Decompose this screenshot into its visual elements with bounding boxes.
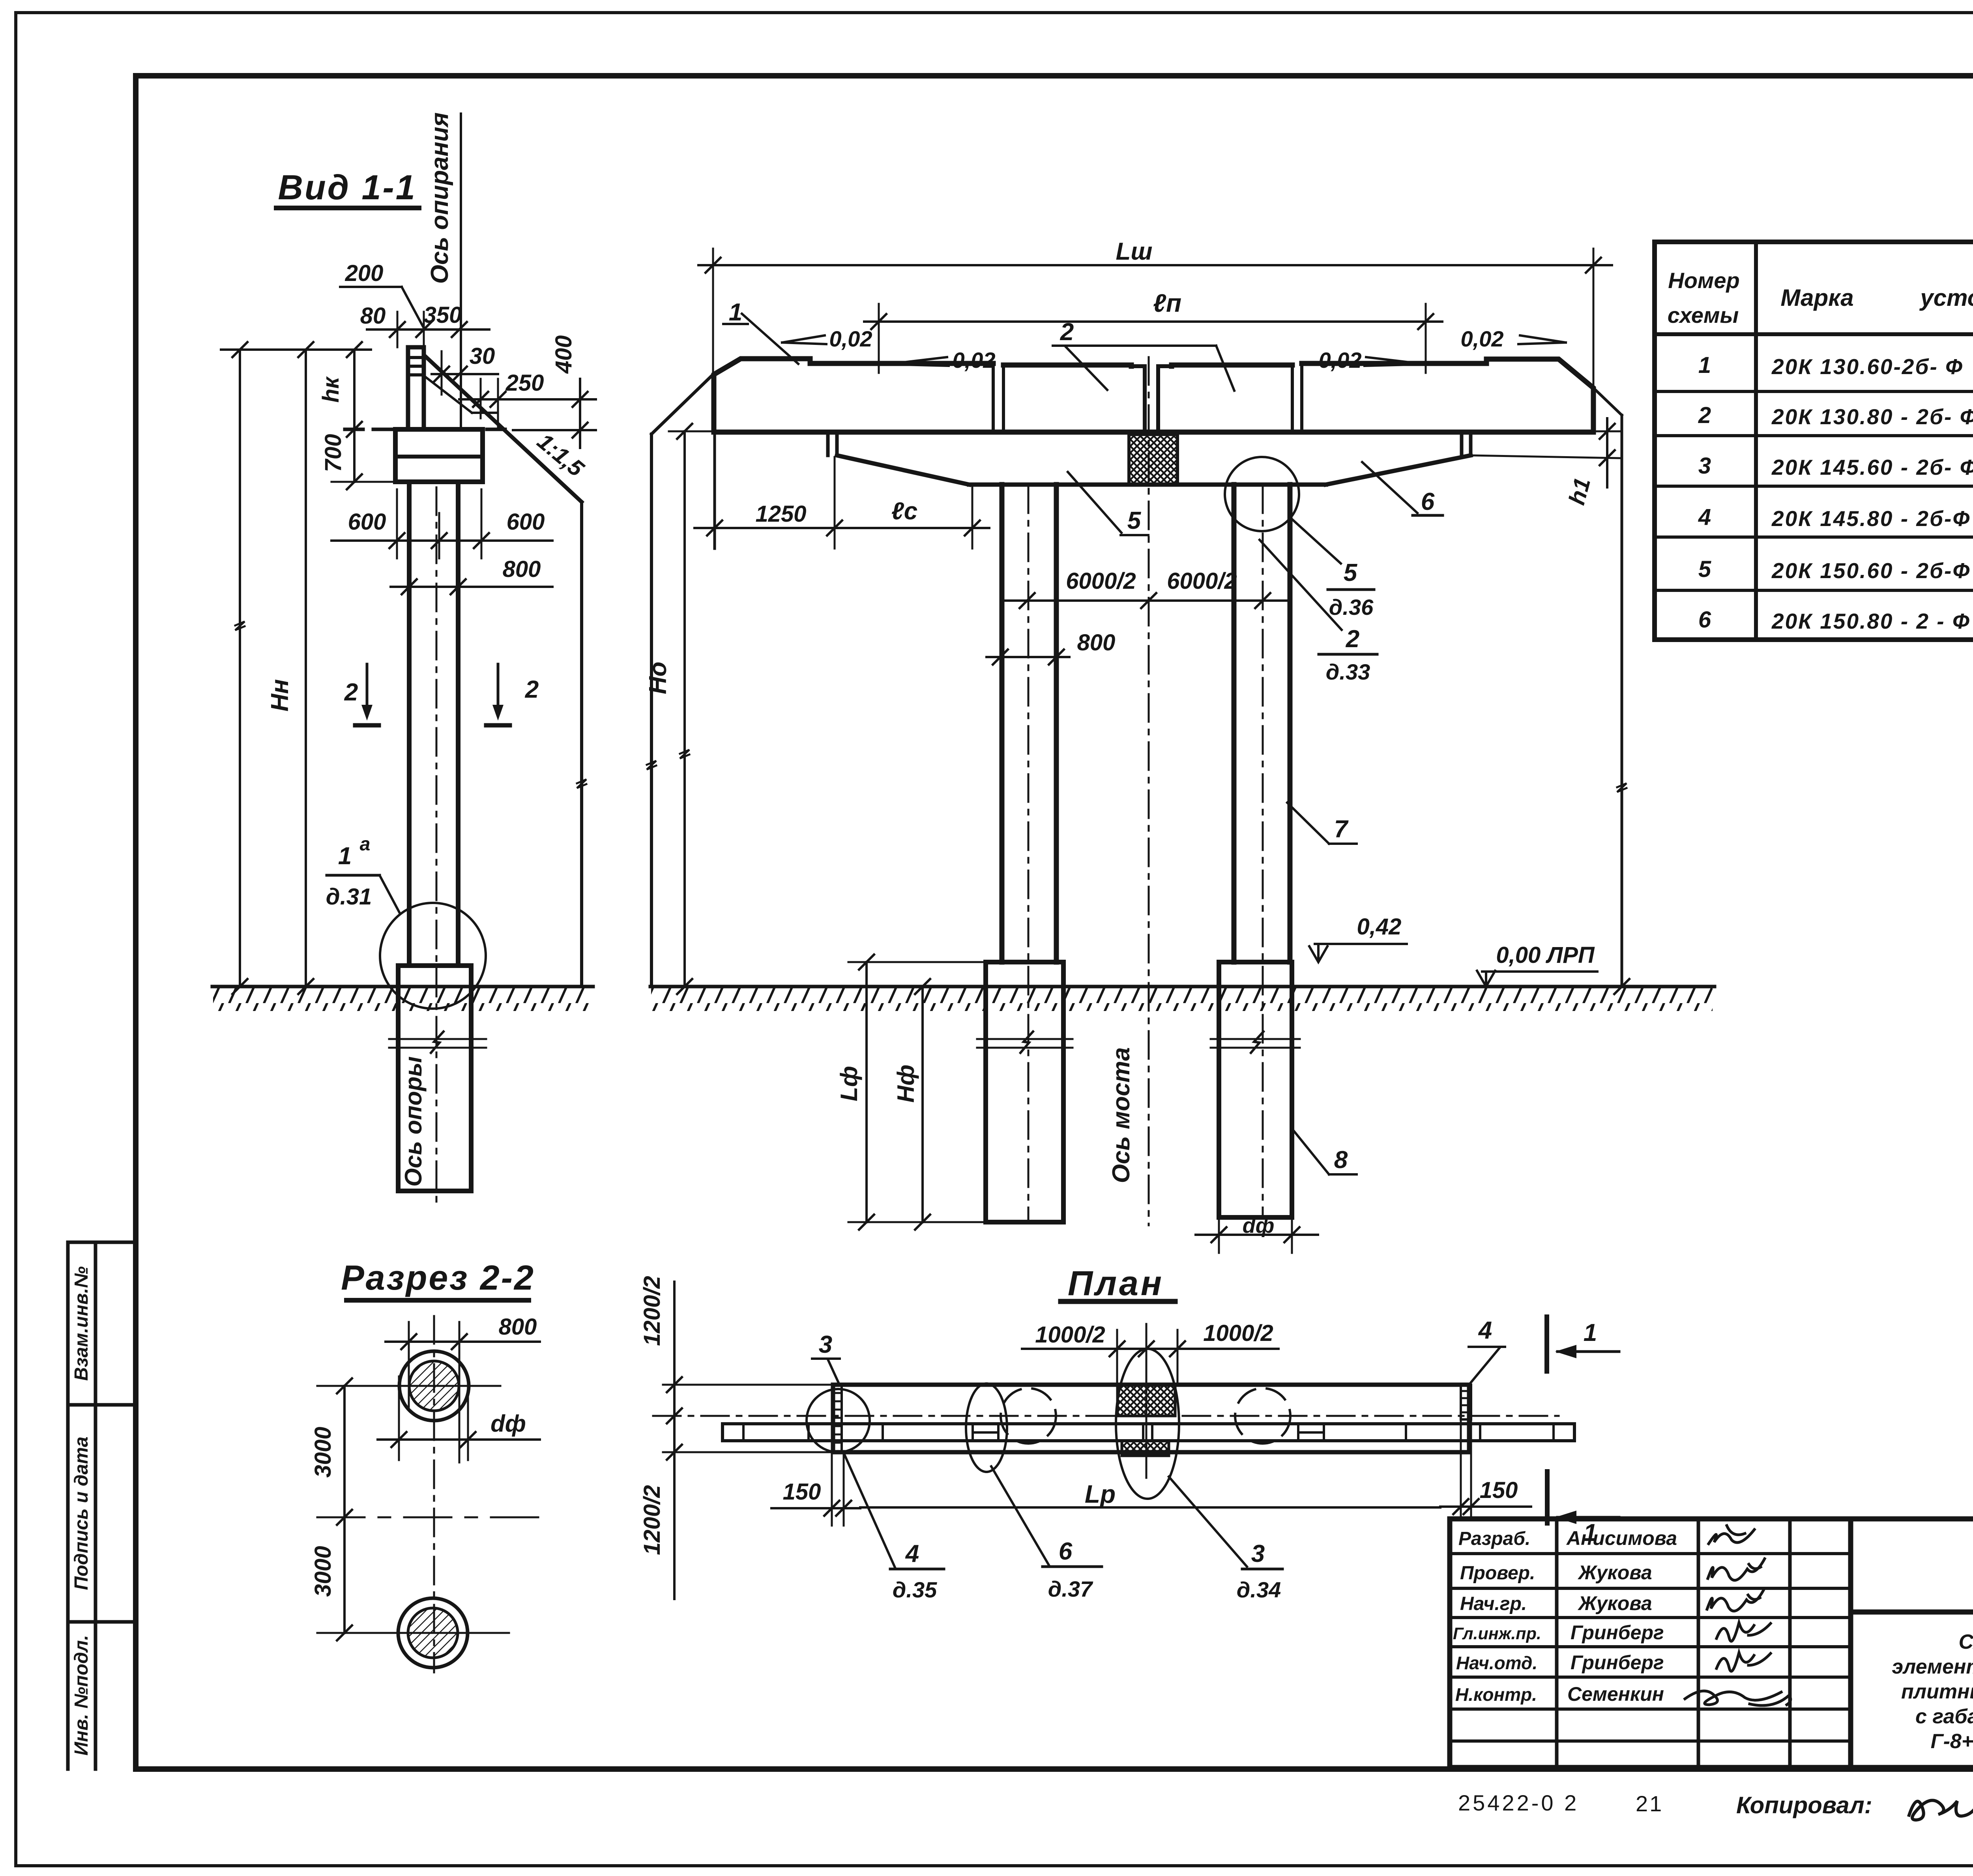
- svg-text:3000: 3000: [310, 1427, 336, 1477]
- hidden pile circles in plan: [1001, 1388, 1290, 1444]
- stamp label Подпись и дата: [71, 1436, 92, 1590]
- svg-text:Lр: Lр: [1085, 1480, 1116, 1508]
- label 1 (deck slab): [723, 299, 798, 364]
- svg-text:20К 130.60-2б- Ф: 20К 130.60-2б- Ф: [1771, 354, 1964, 379]
- drilled shaft foundation (view 1-1): [398, 966, 471, 1191]
- right cone outline (elevation): [1593, 388, 1629, 994]
- svg-text:2: 2: [1346, 625, 1359, 653]
- svg-text:600: 600: [348, 509, 386, 535]
- svg-text:1: 1: [729, 299, 742, 326]
- dim Lш: [698, 238, 1612, 385]
- svg-text:Инв. №подл.: Инв. №подл.: [71, 1635, 92, 1756]
- svg-text:Номер: Номер: [1668, 268, 1739, 293]
- bottom annotations: [1458, 1790, 1973, 1820]
- table row 4: [1698, 504, 1973, 531]
- svg-text:3000: 3000: [310, 1546, 336, 1597]
- detail circle (pile top of foundation): [380, 903, 486, 1009]
- deck outline: [714, 359, 1593, 432]
- svg-text:20К 130.80 - 2б- Ф: 20К 130.80 - 2б- Ф: [1771, 404, 1973, 429]
- svg-text:Ось опирания: Ось опирания: [426, 112, 453, 284]
- svg-text:д.37: д.37: [1048, 1576, 1093, 1601]
- dim 600 600: [331, 489, 552, 558]
- hidden cap top edge dashed: [345, 428, 513, 431]
- support axis label Ось опоры: [400, 1056, 427, 1187]
- svg-text:200: 200: [345, 260, 384, 286]
- svg-text:1: 1: [1584, 1519, 1597, 1546]
- svg-text:6: 6: [1698, 607, 1711, 633]
- drawing description: [1892, 1631, 1973, 1753]
- pile circle top (section 2-2): [317, 1351, 500, 1460]
- dim 80 350: [360, 302, 489, 347]
- svg-text:Н.контр.: Н.контр.: [1455, 1684, 1537, 1705]
- svg-text:Провер.: Провер.: [1460, 1563, 1535, 1584]
- svg-text:2: 2: [1060, 318, 1074, 346]
- svg-text:Жукова: Жукова: [1577, 1592, 1652, 1614]
- svg-text:800: 800: [499, 1314, 537, 1340]
- svg-text:150: 150: [783, 1479, 821, 1505]
- svg-text:Нач.отд.: Нач.отд.: [1456, 1653, 1537, 1673]
- svg-text:800: 800: [1077, 630, 1116, 655]
- svg-text:Hо: Hо: [644, 662, 672, 695]
- svg-text:250: 250: [505, 370, 544, 396]
- label 5 (cap): [1068, 472, 1148, 535]
- abutment cap (elevation): [828, 434, 1471, 485]
- label 4 right: [1469, 1317, 1505, 1383]
- section centerline vertical: [433, 1316, 435, 1672]
- svg-text:4: 4: [1698, 504, 1711, 530]
- detail label 6 д.37: [991, 1466, 1102, 1601]
- dim h1 right: [1472, 418, 1620, 507]
- svg-text:h1: h1: [1564, 475, 1595, 507]
- svg-text:7: 7: [1334, 816, 1349, 843]
- table row 2: [1698, 403, 1973, 429]
- slope mark 0,02 far right: [1461, 326, 1566, 351]
- pile shaft (view 1-1): [409, 482, 458, 966]
- svg-text:5: 5: [1127, 507, 1142, 534]
- svg-text:20К 145.80 - 2б-Ф: 20К 145.80 - 2б-Ф: [1771, 506, 1971, 531]
- svg-text:1200/2: 1200/2: [639, 1276, 665, 1346]
- svg-text:2: 2: [525, 676, 539, 703]
- pile centerline: [436, 487, 438, 1207]
- svg-text:Hн: Hн: [266, 679, 294, 711]
- detail label 3 д.34: [1169, 1477, 1282, 1602]
- slope mark 0,02 mid left: [887, 348, 996, 373]
- svg-text:150: 150: [1480, 1477, 1518, 1503]
- dim 3000 upper: [310, 1378, 352, 1525]
- table row 6: [1698, 607, 1973, 633]
- label 6 (cap): [1362, 462, 1443, 515]
- level mark 0,42: [1309, 914, 1407, 962]
- svg-text:Анисимова: Анисимова: [1566, 1527, 1677, 1549]
- piles (elevation): [1002, 485, 1290, 1219]
- view title Вид 1-1: [276, 168, 419, 208]
- svg-text:8: 8: [1334, 1146, 1348, 1174]
- svg-text:а: а: [360, 834, 371, 855]
- svg-text:1000/2: 1000/2: [1203, 1320, 1273, 1346]
- right foundation shaft (elevation): [1219, 962, 1292, 1217]
- dim 800 (section): [386, 1314, 540, 1462]
- svg-text:25422-0 2: 25422-0 2: [1458, 1790, 1579, 1815]
- dim 3000 lower: [310, 1517, 352, 1640]
- section marker 1 bottom right: [1547, 1472, 1619, 1546]
- dim 800 (pile, elevation): [986, 630, 1115, 665]
- plan axis line: [653, 1415, 1559, 1417]
- pile cap (view 1-1): [395, 429, 483, 482]
- svg-text:2: 2: [1698, 403, 1711, 428]
- svg-text:hк: hк: [318, 376, 344, 403]
- svg-text:21: 21: [1636, 1791, 1663, 1816]
- svg-text:Lф: Lф: [836, 1066, 862, 1101]
- detail label 4 д.35: [844, 1455, 944, 1602]
- svg-text:Hф: Hф: [893, 1065, 919, 1103]
- svg-text:800: 800: [503, 556, 541, 582]
- label 8 (foundation): [1292, 1129, 1357, 1174]
- dim dф (section): [378, 1410, 540, 1447]
- svg-text:1: 1: [1698, 352, 1711, 378]
- svg-text:30: 30: [470, 343, 495, 369]
- svg-text:20К 145.60 - 2б- Ф: 20К 145.60 - 2б- Ф: [1771, 455, 1973, 479]
- spec table grid: [1655, 242, 1973, 640]
- svg-text:1250: 1250: [755, 501, 806, 527]
- break symbol left shaft: [977, 1032, 1073, 1053]
- svg-text:д.36: д.36: [1329, 595, 1374, 620]
- svg-text:Разрез 2-2: Разрез 2-2: [341, 1258, 535, 1297]
- dim 6000/2 6000/2: [1004, 568, 1286, 608]
- svg-text:0,42: 0,42: [1357, 914, 1402, 940]
- svg-text:ℓс: ℓс: [891, 498, 917, 525]
- svg-text:5: 5: [1344, 559, 1358, 586]
- dim 800 (pile width, view 1-1): [391, 556, 552, 594]
- svg-text:Ось опоры: Ось опоры: [400, 1056, 427, 1187]
- svg-text:400: 400: [551, 335, 577, 374]
- svg-text:80: 80: [360, 303, 386, 329]
- svg-text:20К 150.60 - 2б-Ф: 20К 150.60 - 2б-Ф: [1771, 558, 1971, 583]
- detail label 5 д.36: [1290, 517, 1374, 620]
- svg-text:Нач.гр.: Нач.гр.: [1460, 1593, 1527, 1614]
- svg-text:0,00 ЛРП: 0,00 ЛРП: [1496, 942, 1595, 968]
- svg-text:Ось моста: Ось моста: [1108, 1047, 1135, 1183]
- dim ℓс: [891, 486, 980, 549]
- dim ℓп: [864, 289, 1442, 373]
- left foundation shaft (elevation): [986, 962, 1063, 1222]
- svg-text:устоя: устоя: [1919, 285, 1973, 311]
- left wing wall hatched: [833, 1385, 842, 1452]
- cap in plan: [833, 1385, 1469, 1452]
- dim 150 left: [771, 1454, 860, 1526]
- break symbol in shaft: [389, 1032, 486, 1053]
- dim Hф: [893, 979, 930, 1230]
- svg-text:Семенкин: Семенкин: [1567, 1683, 1664, 1705]
- slab strip in plan: [723, 1424, 1574, 1441]
- ground line (view 1-1): [212, 987, 593, 1011]
- svg-text:dф: dф: [490, 1410, 526, 1437]
- break symbol right shaft: [1211, 1032, 1300, 1053]
- dim 200 leader: [340, 260, 425, 330]
- svg-text:Lш: Lш: [1116, 238, 1153, 265]
- svg-text:4: 4: [905, 1540, 919, 1567]
- svg-text:0,02: 0,02: [953, 348, 996, 373]
- svg-text:3: 3: [819, 1331, 832, 1358]
- svg-text:0,02: 0,02: [1319, 348, 1362, 373]
- svg-text:Взам.инв.№: Взам.инв.№: [71, 1266, 92, 1381]
- svg-text:600: 600: [507, 509, 545, 535]
- svg-text:3: 3: [1251, 1540, 1265, 1567]
- svg-text:3: 3: [1698, 453, 1711, 479]
- dim 30: [432, 343, 498, 395]
- svg-text:д.31: д.31: [326, 884, 372, 910]
- dim Lр: [860, 1480, 1440, 1508]
- dim 1200/2 upper: [639, 1276, 833, 1599]
- plan title План: [1061, 1264, 1175, 1303]
- slope label 1:1,5: [532, 429, 589, 482]
- svg-text:Копировал:: Копировал:: [1736, 1792, 1872, 1818]
- svg-text:Гл.инж.пр.: Гл.инж.пр.: [1453, 1624, 1541, 1643]
- dim 250: [459, 370, 573, 430]
- level mark 0,00 ЛРП: [1477, 942, 1597, 987]
- bridge axis label Ось моста: [1108, 1047, 1135, 1183]
- dim 1200/2 lower: [639, 1485, 665, 1555]
- svg-text:План: План: [1068, 1264, 1164, 1303]
- svg-text:Схема расположения: Схема расположения: [1959, 1631, 1973, 1653]
- left cone outline (elevation): [647, 374, 714, 987]
- dim 700: [320, 434, 395, 482]
- bridge axis line: [1148, 357, 1150, 1225]
- svg-text:0,02: 0,02: [829, 326, 872, 351]
- stamp label Взам.инв.№: [71, 1266, 92, 1381]
- pile circle bottom (section 2-2): [317, 1598, 509, 1668]
- dim 1250: [694, 434, 989, 549]
- section marker 2 right: [486, 664, 539, 725]
- dim Lф: [836, 955, 986, 1230]
- svg-text:6: 6: [1059, 1538, 1073, 1565]
- svg-text:Подпись и дата: Подпись и дата: [71, 1436, 92, 1590]
- svg-text:ℓп: ℓп: [1153, 289, 1181, 317]
- svg-text:д.34: д.34: [1237, 1577, 1281, 1602]
- svg-text:6: 6: [1421, 488, 1435, 515]
- signatures scribbles: [1685, 1526, 1791, 1706]
- detail ellipse 6: [966, 1384, 1007, 1472]
- table row 1: [1698, 352, 1973, 379]
- slope mark 0,02 far left: [782, 326, 872, 351]
- svg-text:Г-8+2×1,5; Г-10+2 × 0.75: Г-8+2×1,5; Г-10+2 × 0.75: [1931, 1730, 1973, 1753]
- svg-text:Марка: Марка: [1780, 285, 1853, 311]
- slope mark 0,02 mid right: [1319, 348, 1426, 373]
- svg-text:1200/2: 1200/2: [639, 1485, 665, 1555]
- svg-text:1: 1: [1584, 1319, 1597, 1346]
- dim hк: [318, 350, 362, 489]
- label 7 (pile): [1287, 803, 1357, 844]
- ground line (elevation): [650, 987, 1715, 1011]
- label Hн: [266, 679, 294, 711]
- dim 150 right: [1440, 1477, 1531, 1514]
- abutment back wall (view 1-1): [408, 347, 424, 429]
- title block signature labels: [1453, 1528, 1541, 1705]
- left stamp column cells: [68, 1242, 136, 1769]
- svg-text:5: 5: [1698, 556, 1711, 582]
- detail circle left cap end: [807, 1389, 870, 1452]
- bearing axis label Ось опирания: [426, 112, 453, 284]
- embankment slope 1:1.5: [424, 356, 586, 987]
- svg-text:0,02: 0,02: [1461, 326, 1504, 351]
- svg-text:6000/2: 6000/2: [1167, 568, 1237, 594]
- left dim verticals Hн: [221, 342, 371, 994]
- bearing pads in plan (hatched): [1118, 1385, 1175, 1456]
- dim 400 vertical: [513, 335, 596, 448]
- detail circle 5/д.36: [1225, 457, 1299, 531]
- svg-text:Гринберг: Гринберг: [1571, 1651, 1664, 1674]
- svg-text:с габаритами Г-8 + 2 × 0,75;: с габаритами Г-8 + 2 × 0,75;: [1915, 1705, 1973, 1728]
- stamp label Инв.№подл.: [71, 1635, 92, 1756]
- label 2 (middle slabs): [1053, 318, 1234, 391]
- bearing pad (elevation, hatched): [1129, 434, 1177, 485]
- title block grid: [1450, 1519, 1973, 1767]
- detail label 1a д.31: [326, 834, 399, 912]
- dim Hо left: [644, 424, 715, 994]
- bearing axis line: [460, 114, 462, 430]
- svg-text:2: 2: [344, 679, 358, 706]
- svg-text:700: 700: [320, 434, 346, 472]
- svg-text:1: 1: [338, 843, 352, 870]
- section marker 1 top right: [1547, 1317, 1619, 1371]
- right wing wall hatched: [1461, 1385, 1471, 1517]
- section marker 2 left: [344, 664, 379, 725]
- middle tick line: [317, 1517, 544, 1518]
- svg-text:Жукова: Жукова: [1577, 1561, 1652, 1584]
- svg-text:д.35: д.35: [893, 1577, 937, 1602]
- section title Разрез 2-2: [341, 1258, 535, 1300]
- detail label 2 д.33: [1260, 540, 1377, 684]
- svg-text:схемы: схемы: [1668, 303, 1739, 328]
- dim dф (elevation): [1196, 1208, 1318, 1253]
- svg-text:Разраб.: Разраб.: [1458, 1528, 1530, 1549]
- table header texts: [1668, 255, 1973, 330]
- svg-text:Гринберг: Гринберг: [1571, 1621, 1664, 1644]
- svg-text:1000/2: 1000/2: [1035, 1322, 1105, 1348]
- svg-text:20К 150.80 - 2 - Ф: 20К 150.80 - 2 - Ф: [1771, 609, 1971, 633]
- svg-text:4: 4: [1478, 1317, 1492, 1344]
- table row 5: [1698, 556, 1973, 583]
- title block signature names: [1566, 1527, 1677, 1705]
- detail ellipse 3/д.34: [1116, 1349, 1179, 1499]
- svg-text:Вид 1-1: Вид 1-1: [278, 168, 416, 207]
- label 3 left: [812, 1331, 840, 1384]
- table row 3: [1698, 453, 1973, 479]
- dim 1000/2 1000/2: [1022, 1320, 1279, 1478]
- svg-text:д.33: д.33: [1326, 659, 1370, 684]
- svg-text:6000/2: 6000/2: [1066, 568, 1136, 594]
- svg-text:плитные пролетные строения: плитные пролетные строения: [1901, 1680, 1973, 1703]
- svg-text:элементов устоев 20к,Lш,Hн под: элементов устоев 20к,Lш,Hн под: [1892, 1655, 1973, 1678]
